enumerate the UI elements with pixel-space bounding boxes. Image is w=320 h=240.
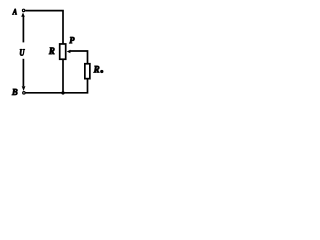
- wiper label P: [69, 37, 74, 43]
- node A label: [12, 9, 16, 15]
- voltage U label: [20, 49, 25, 55]
- wiper arrowhead pointing left into R: [67, 50, 71, 54]
- voltage U arrowhead up (toward A): [21, 12, 25, 16]
- resistor R0 label: [94, 66, 100, 73]
- voltage U arrowhead down (toward B): [22, 86, 26, 91]
- wire: bottom rail from B terminal to right corner, up to R0 bottom: [25, 79, 87, 93]
- node B label: [12, 89, 18, 95]
- resistor R value label: [49, 48, 55, 55]
- junction dot at R bottom on rail: [61, 91, 64, 94]
- wire: R bottom down to bottom rail: [62, 59, 64, 93]
- resistor R0 body: [85, 64, 90, 79]
- resistor R (rheostat body): [60, 44, 66, 59]
- terminal B: [23, 92, 25, 94]
- wire: A terminal along top rail, down to R top: [25, 11, 63, 44]
- voltage U shaft upper segment: [22, 16, 24, 42]
- resistor R0 label subscript 0: [100, 70, 103, 73]
- wiper lead: from arrow right along to corner, down to R0 top: [70, 51, 88, 64]
- voltage U shaft lower segment: [22, 59, 24, 86]
- terminal A: [22, 9, 24, 11]
